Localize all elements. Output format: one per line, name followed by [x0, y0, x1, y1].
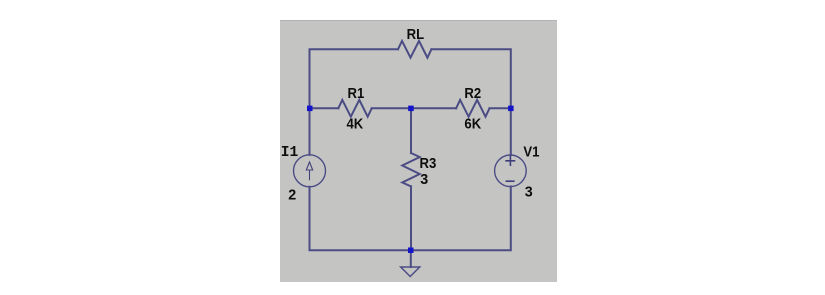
ground symbol — [401, 267, 420, 277]
resistor RL — [398, 41, 431, 58]
svg-text:4K: 4K — [347, 116, 364, 132]
svg-text:R1: R1 — [348, 85, 365, 101]
wire left node down to I1 — [309, 108, 311, 155]
wire RL to top-right corner — [431, 49, 510, 108]
svg-text:RL: RL — [407, 27, 425, 43]
wire I1 to bottom-left corner — [310, 187, 411, 251]
node at middle junction — [408, 106, 414, 112]
ground stub — [410, 250, 412, 267]
wire top-left to RL — [310, 49, 399, 108]
resistor R2 — [456, 100, 489, 117]
I1 arrow — [306, 162, 312, 180]
wire middle node down to R3 — [410, 108, 412, 153]
node at left junction — [307, 106, 313, 112]
svg-text:3: 3 — [420, 172, 428, 188]
svg-text:2: 2 — [288, 187, 296, 203]
node at bottom junction — [408, 248, 414, 254]
schematic gray canvas — [280, 20, 557, 282]
wire R3 to bottom node — [410, 186, 412, 250]
V1 plus sign — [505, 156, 515, 182]
voltage source V1 circle — [495, 155, 527, 187]
svg-text:3: 3 — [525, 184, 533, 200]
svg-text:R3: R3 — [420, 156, 437, 172]
svg-text:6K: 6K — [464, 116, 481, 132]
resistor R3 — [402, 153, 419, 186]
wire left node to R1 — [310, 107, 339, 109]
svg-text:V1: V1 — [523, 144, 539, 160]
current source I1 circle — [294, 155, 326, 187]
wire R2 to right wire — [490, 107, 511, 109]
svg-text:I1: I1 — [281, 145, 299, 161]
svg-text:R2: R2 — [464, 85, 481, 101]
node at right junction — [508, 106, 513, 112]
wire R1 to R2 — [372, 107, 456, 109]
resistor R1 — [338, 100, 371, 117]
wire right down to V1 — [510, 108, 512, 155]
wire V1 to bottom-right corner — [411, 187, 511, 251]
V1 minus sign — [506, 180, 515, 182]
